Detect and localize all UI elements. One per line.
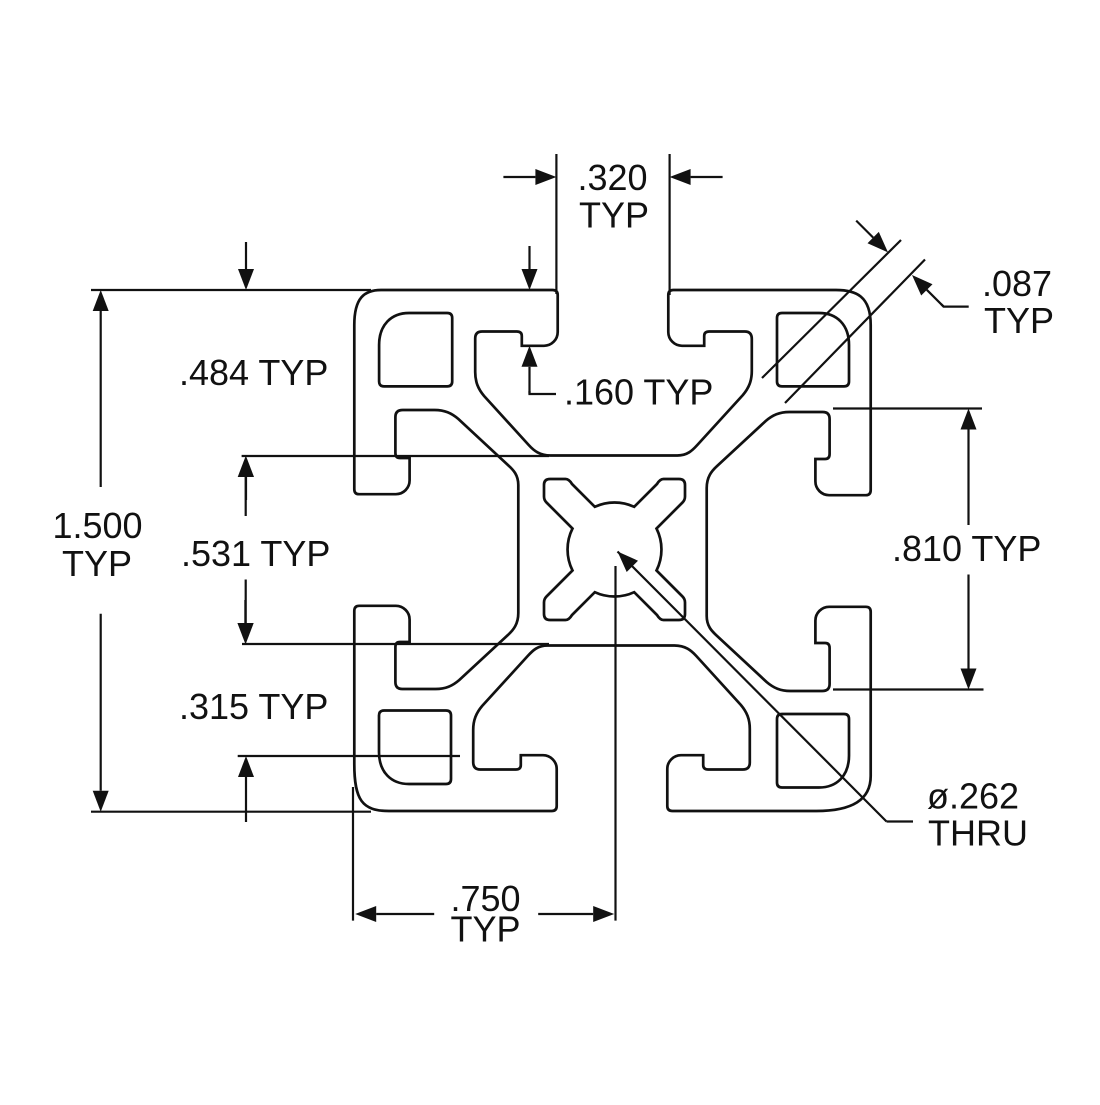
extension line of top face to the left — [91, 289, 371, 291]
extension line from left face down — [352, 787, 354, 921]
dimension 1.500 TYP vertical line with arrows — [93, 290, 109, 311]
bottom-right corner bore hole — [777, 714, 849, 788]
svg-text:THRU: THRU — [928, 813, 1028, 854]
svg-text:.315 TYP: .315 TYP — [179, 686, 328, 727]
svg-text:.320: .320 — [577, 157, 647, 198]
extension line at bottom cavity ceiling (y=644) — [242, 643, 549, 645]
extrusion outer profile outline with T-slot cavities — [354, 290, 870, 811]
svg-text:ø.262: ø.262 — [927, 776, 1019, 817]
svg-text:1.500: 1.500 — [52, 505, 142, 546]
extension line at slot cavity floor (y=456) — [242, 455, 549, 457]
svg-text:.484 TYP: .484 TYP — [179, 352, 328, 393]
dimension .750 TYP arrows — [355, 906, 376, 922]
dimension .484 TYP arrows — [238, 269, 254, 290]
bottom-left corner bore hole — [379, 711, 451, 785]
extension line A of diagonal web wall — [762, 240, 901, 378]
dimension .315 TYP arrows — [237, 623, 253, 644]
dimension .810 TYP vertical line with arrows — [961, 409, 977, 430]
extension lines of top slot opening — [555, 154, 557, 294]
top-right corner bore hole — [777, 313, 849, 386]
svg-text:.087: .087 — [982, 263, 1052, 304]
svg-text:.531 TYP: .531 TYP — [181, 533, 330, 574]
svg-text:TYP: TYP — [450, 909, 520, 950]
svg-text:TYP: TYP — [984, 300, 1054, 341]
extension line B of diagonal web wall — [785, 260, 925, 404]
center X-shaped cutout with 0.262 thru hole — [544, 479, 685, 620]
dimension .320 TYP arrows — [535, 169, 556, 185]
leader arrow to thru hole center — [618, 552, 639, 573]
extension lines of right slot cavity walls — [833, 407, 982, 409]
extension line of bottom face to the left — [91, 811, 371, 813]
top-left corner bore hole — [379, 313, 452, 386]
dimension .531 TYP vertical line with arrows — [238, 456, 254, 477]
svg-text:TYP: TYP — [579, 195, 649, 236]
extension line from hole center down — [614, 566, 616, 921]
svg-text:.160 TYP: .160 TYP — [564, 372, 713, 413]
dimension .160 TYP arrows and leader — [522, 269, 538, 290]
svg-text:TYP: TYP — [62, 543, 132, 584]
extension line at bottom lip shoulder (y=756) — [238, 755, 460, 757]
svg-text:.810 TYP: .810 TYP — [892, 528, 1041, 569]
dimension .087 TYP arrows and leader — [868, 232, 889, 253]
